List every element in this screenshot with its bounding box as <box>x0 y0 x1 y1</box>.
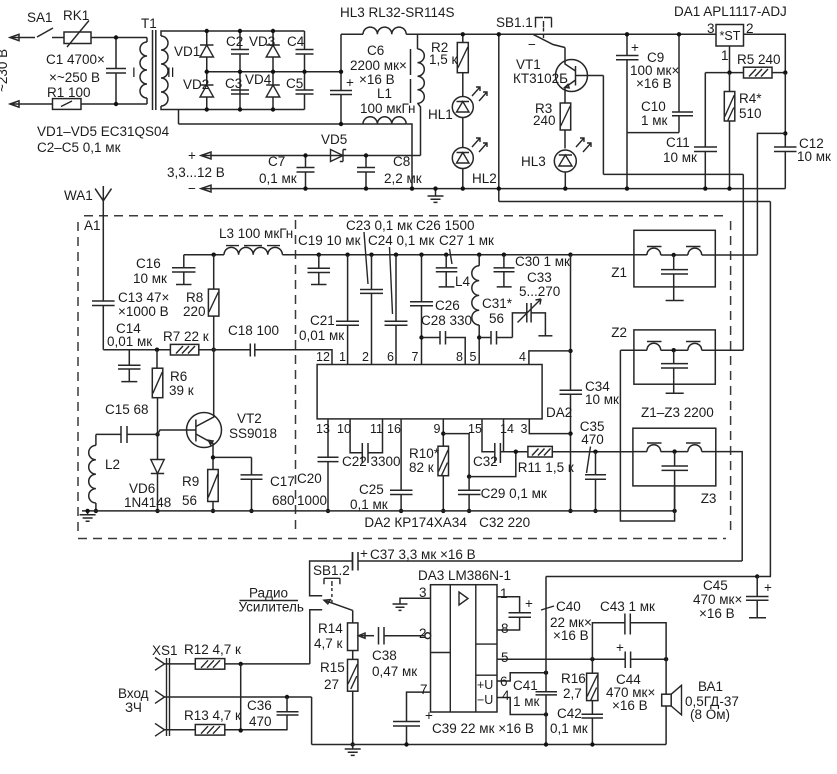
svg-text:C5: C5 <box>286 76 303 91</box>
svg-text:240: 240 <box>533 113 556 128</box>
svg-text:C30 1 мк: C30 1 мк <box>515 254 570 269</box>
svg-text:56: 56 <box>182 493 197 508</box>
svg-text:DA3 LM386N-1: DA3 LM386N-1 <box>418 568 511 583</box>
svg-text:C29 0,1 мк: C29 0,1 мк <box>481 486 547 501</box>
svg-text:7: 7 <box>412 350 419 364</box>
svg-text:11: 11 <box>370 422 383 436</box>
svg-text:T1: T1 <box>141 16 157 31</box>
svg-text:~230 В: ~230 В <box>0 49 10 92</box>
svg-text:C7: C7 <box>268 154 285 169</box>
svg-text:C6: C6 <box>367 43 384 58</box>
svg-text:1000: 1000 <box>297 493 327 508</box>
svg-text:C41: C41 <box>513 678 538 693</box>
svg-text:13: 13 <box>316 422 330 436</box>
svg-text:C28 330: C28 330 <box>421 313 472 328</box>
svg-text:C4: C4 <box>287 34 305 49</box>
svg-text:C40: C40 <box>556 599 581 614</box>
svg-text:Усилитель: Усилитель <box>239 600 304 615</box>
svg-text:R14: R14 <box>318 621 343 636</box>
svg-text:C18 100: C18 100 <box>228 323 279 338</box>
svg-text:3: 3 <box>521 422 528 436</box>
svg-text:3,3...12 В: 3,3...12 В <box>167 165 225 180</box>
svg-text:680: 680 <box>272 493 295 508</box>
svg-text:10 мк: 10 мк <box>797 149 831 164</box>
svg-text:SA1: SA1 <box>27 10 53 25</box>
svg-text:10 мк: 10 мк <box>133 271 167 286</box>
svg-text:39 к: 39 к <box>169 383 194 398</box>
svg-text:C13 47×: C13 47× <box>118 290 169 305</box>
svg-text:DA1 APL1117-ADJ: DA1 APL1117-ADJ <box>674 4 787 19</box>
svg-text:C15 68: C15 68 <box>105 402 149 417</box>
svg-text:ЗЧ: ЗЧ <box>125 700 142 715</box>
svg-text:SB1.1: SB1.1 <box>496 15 533 30</box>
svg-text:5: 5 <box>470 350 477 364</box>
svg-text:R6: R6 <box>170 369 187 384</box>
svg-text:15: 15 <box>468 422 482 436</box>
svg-text:C32: C32 <box>473 454 498 469</box>
svg-text:C20: C20 <box>297 471 322 486</box>
svg-text:+: + <box>188 148 196 163</box>
svg-text:XS1: XS1 <box>152 643 178 658</box>
svg-text:4,7 к: 4,7 к <box>314 636 343 651</box>
svg-text:R5 240: R5 240 <box>737 52 781 67</box>
svg-text:×16 В: ×16 В <box>699 606 735 621</box>
svg-text:10 мк: 10 мк <box>585 392 619 407</box>
svg-text:*ST: *ST <box>720 29 741 43</box>
svg-text:C37 3,3 мк ×16 В: C37 3,3 мк ×16 В <box>370 547 476 562</box>
svg-text:3: 3 <box>419 585 427 600</box>
svg-text:C26 1500: C26 1500 <box>416 218 475 233</box>
svg-text:C39 22 мк ×16 В: C39 22 мк ×16 В <box>432 721 534 736</box>
svg-text:WA1: WA1 <box>64 188 93 203</box>
svg-text:4: 4 <box>519 350 526 364</box>
svg-text:HL2: HL2 <box>472 171 497 186</box>
svg-text:C36: C36 <box>247 698 272 713</box>
svg-text:L4: L4 <box>455 274 471 289</box>
svg-text:C10: C10 <box>641 99 666 114</box>
svg-text:2200 мк×: 2200 мк× <box>350 58 407 73</box>
svg-text:VD1: VD1 <box>174 44 200 59</box>
svg-text:R15: R15 <box>320 660 345 675</box>
svg-text:2,7: 2,7 <box>563 686 582 701</box>
svg-text:0,01 мк: 0,01 мк <box>107 334 152 349</box>
svg-text:8: 8 <box>456 350 463 364</box>
svg-text:1,5 к: 1,5 к <box>429 52 458 67</box>
svg-text:×1000 В: ×1000 В <box>118 304 169 319</box>
svg-text:R12 4,7 к: R12 4,7 к <box>184 642 241 657</box>
svg-text:R4*: R4* <box>739 91 762 106</box>
svg-text:0,1 мк: 0,1 мк <box>350 497 388 512</box>
svg-text:82 к: 82 к <box>409 460 434 475</box>
svg-text:L2: L2 <box>105 457 120 472</box>
svg-text:C3: C3 <box>225 76 242 91</box>
svg-text:R7 22 к: R7 22 к <box>163 329 209 344</box>
svg-text:VD1–VD5 EC31QS04: VD1–VD5 EC31QS04 <box>37 124 170 139</box>
svg-text:2: 2 <box>419 626 427 641</box>
svg-text:10: 10 <box>337 422 351 436</box>
svg-text:+: + <box>525 596 533 611</box>
svg-text:9: 9 <box>434 422 441 436</box>
svg-text:C24 0,1 мк: C24 0,1 мк <box>368 233 434 248</box>
svg-text:RK1: RK1 <box>63 8 89 23</box>
svg-text:470 мк×: 470 мк× <box>693 592 742 607</box>
svg-text:C23 0,1 мк: C23 0,1 мк <box>346 218 412 233</box>
svg-text:0,1 мк: 0,1 мк <box>550 721 588 736</box>
svg-text:16: 16 <box>387 422 401 436</box>
svg-text:1 мк: 1 мк <box>513 694 540 709</box>
svg-text:КТ3102Б: КТ3102Б <box>513 71 568 86</box>
svg-text:R8: R8 <box>186 290 203 305</box>
svg-text:Радио: Радио <box>249 586 288 601</box>
svg-text:8: 8 <box>501 621 509 636</box>
svg-text:(8 Ом): (8 Ом) <box>690 707 730 722</box>
svg-text:470: 470 <box>249 714 272 729</box>
svg-text:R16: R16 <box>561 671 586 686</box>
svg-text:3: 3 <box>707 21 715 36</box>
svg-text:HL1: HL1 <box>428 107 453 122</box>
svg-text:I: I <box>132 65 136 80</box>
svg-text:C17: C17 <box>270 474 295 489</box>
svg-text:470: 470 <box>581 432 604 447</box>
svg-text:DA2 КР174ХА34: DA2 КР174ХА34 <box>364 515 467 530</box>
svg-text:DA2: DA2 <box>546 405 572 420</box>
svg-text:−U: −U <box>477 693 493 707</box>
svg-text:14: 14 <box>500 422 514 436</box>
svg-text:Вход: Вход <box>118 686 149 701</box>
svg-text:510: 510 <box>739 106 762 121</box>
svg-text:C43 1 мк: C43 1 мк <box>600 599 655 614</box>
svg-text:ВА1: ВА1 <box>698 679 723 694</box>
svg-text:+: + <box>346 75 354 90</box>
svg-text:Z1: Z1 <box>611 265 627 280</box>
svg-text:C42: C42 <box>557 706 582 721</box>
svg-text:L3 100 мкГн: L3 100 мкГн <box>219 226 293 241</box>
svg-text:12: 12 <box>316 350 330 364</box>
svg-text:SB1.2: SB1.2 <box>313 563 350 578</box>
svg-text:R11 1,5 к: R11 1,5 к <box>518 460 574 475</box>
svg-text:+: + <box>764 580 772 595</box>
svg-text:5...270: 5...270 <box>519 284 560 299</box>
svg-text:+: + <box>425 708 433 723</box>
svg-text:VT2: VT2 <box>237 411 262 426</box>
svg-text:C38: C38 <box>372 648 397 663</box>
svg-text:C26: C26 <box>435 298 460 313</box>
svg-text:0,1 мк: 0,1 мк <box>259 171 297 186</box>
svg-text:C25: C25 <box>359 482 384 497</box>
svg-text:C2: C2 <box>226 34 243 49</box>
svg-text:A1: A1 <box>84 218 101 233</box>
svg-text:VD5: VD5 <box>321 132 347 147</box>
svg-text:C2–C5 0,1 мк: C2–C5 0,1 мк <box>37 140 121 155</box>
svg-text:Z1–Z3 2200: Z1–Z3 2200 <box>641 405 714 420</box>
svg-text:−: − <box>188 181 196 196</box>
svg-text:7: 7 <box>420 682 428 697</box>
svg-text:1N4148: 1N4148 <box>124 495 171 510</box>
svg-text:×16 В: ×16 В <box>359 72 395 87</box>
svg-text:5: 5 <box>501 650 509 665</box>
svg-text:1: 1 <box>339 350 346 364</box>
svg-text:+: + <box>360 546 368 561</box>
svg-text:SS9018: SS9018 <box>229 426 277 441</box>
svg-text:Z2: Z2 <box>611 325 627 340</box>
svg-text:10 мк: 10 мк <box>663 150 697 165</box>
svg-text:C31*: C31* <box>482 296 513 311</box>
svg-text:II: II <box>167 65 175 80</box>
svg-text:×~250 В: ×~250 В <box>49 70 100 85</box>
svg-text:2: 2 <box>746 21 754 36</box>
svg-text:0,01 мк: 0,01 мк <box>299 328 344 343</box>
svg-text:×16 В: ×16 В <box>553 628 589 643</box>
svg-text:+U: +U <box>477 678 493 692</box>
svg-text:4: 4 <box>502 688 510 703</box>
svg-text:C11: C11 <box>666 135 690 150</box>
svg-text:C32 220: C32 220 <box>479 515 530 530</box>
svg-text:HL3: HL3 <box>521 154 546 169</box>
svg-text:R1 100: R1 100 <box>47 85 91 100</box>
svg-text:6: 6 <box>500 674 508 689</box>
svg-text:C45: C45 <box>703 578 728 593</box>
svg-text:C16: C16 <box>136 256 161 271</box>
svg-text:C1 4700×: C1 4700× <box>46 52 105 67</box>
svg-text:×16 В: ×16 В <box>612 698 648 713</box>
svg-text:+: + <box>631 40 639 55</box>
svg-text:27: 27 <box>324 677 339 692</box>
svg-text:HL3 RL32-SR114S: HL3 RL32-SR114S <box>340 5 455 20</box>
svg-text:C8: C8 <box>393 154 410 169</box>
svg-text:VD4: VD4 <box>245 72 272 87</box>
svg-text:R10*: R10* <box>409 446 440 461</box>
svg-text:Z3: Z3 <box>701 491 717 506</box>
svg-text:R9: R9 <box>182 474 199 489</box>
svg-text:2: 2 <box>362 350 369 364</box>
svg-text:VD2: VD2 <box>183 77 209 92</box>
svg-text:C33: C33 <box>527 270 552 285</box>
svg-text:VD3: VD3 <box>249 34 275 49</box>
svg-text:1: 1 <box>721 48 729 63</box>
svg-text:VD6: VD6 <box>129 481 155 496</box>
svg-text:×16 В: ×16 В <box>636 76 672 91</box>
svg-text:56: 56 <box>489 311 504 326</box>
svg-text:0,47 мк: 0,47 мк <box>372 664 417 679</box>
svg-text:220: 220 <box>183 304 206 319</box>
svg-text:1: 1 <box>500 586 508 601</box>
svg-text:2,2 мк: 2,2 мк <box>384 171 422 186</box>
svg-text:VT1: VT1 <box>516 57 541 72</box>
svg-text:C19 10 мк: C19 10 мк <box>298 233 361 248</box>
svg-text:6: 6 <box>387 350 394 364</box>
svg-text:C22 3300: C22 3300 <box>342 454 401 469</box>
svg-text:−: − <box>528 37 536 52</box>
svg-text:C27 1 мк: C27 1 мк <box>439 233 494 248</box>
svg-text:R13 4,7 к: R13 4,7 к <box>184 708 241 723</box>
svg-text:L1: L1 <box>377 86 392 101</box>
svg-text:C21: C21 <box>310 313 335 328</box>
svg-text:1 мк: 1 мк <box>641 113 668 128</box>
svg-text:+: + <box>616 640 624 655</box>
svg-text:100 мкГн: 100 мкГн <box>360 101 415 116</box>
